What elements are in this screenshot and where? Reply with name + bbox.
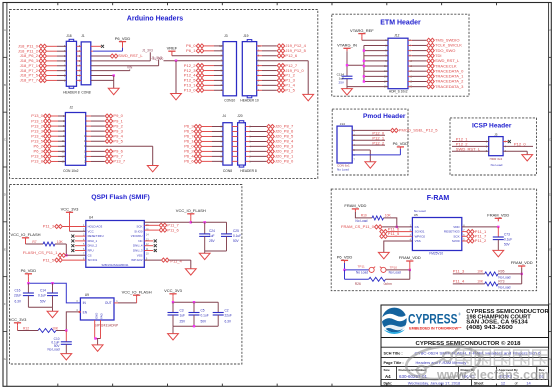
capacitor C73 [497,227,499,237]
wire J2 pin 10 to net P9_4 [86,135,91,137]
svg-text:P6_VDD: P6_VDD [393,141,409,146]
wire net P12_1 at J14 [352,139,385,141]
svg-text:FRAM_VDD: FRAM_VDD [399,255,421,260]
junction dot VTARG_IN vertical [346,64,348,66]
wire R12 to U9 EN [66,312,80,331]
svg-text:B: B [4,83,6,87]
wire J2 pin 16 to net P9_6 [86,150,91,152]
wire J4 to J20 row 6 [232,150,238,152]
QSPI Flash block dashed outline [10,185,242,365]
wire J2 pin 14 to ground [86,145,153,147]
svg-text:P11_4: P11_4 [453,279,465,284]
svg-text:50V: 50V [201,319,208,323]
svg-text:P11_5: P11_5 [388,231,400,236]
svg-text:HEADER 10: HEADER 10 [240,99,258,103]
svg-text:RESET:RFU: RESET:RFU [88,234,104,238]
svg-text:VSS: VSS [137,253,143,257]
svg-text:0.1uF: 0.1uF [201,314,209,318]
svg-text:FRAM_VDD: FRAM_VDD [344,203,366,208]
ground at J14 [365,162,376,168]
no-connect X on U4 left pin 5 [75,245,86,247]
wire VCC_IO_FLASH rail to U4 [190,217,192,223]
wire ETM bus to J12 left pin row 7 [364,70,388,72]
wire J19 to net P1_5 [257,89,262,91]
wire rail to decoupling caps [191,221,227,223]
svg-text:22uF: 22uF [14,293,21,297]
svg-text:WP:AO2: WP:AO2 [131,258,143,262]
svg-text:Date:: Date: [384,382,393,386]
svg-text:6.3V: 6.3V [15,299,22,303]
svg-text:0ohm: 0ohm [384,282,393,286]
svg-text:HDR_S 10x2: HDR_S 10x2 [389,90,408,94]
wire J12 to net SWD_RST_L [408,60,412,62]
title block outer box [381,305,549,386]
svg-text:RFU: RFU [88,249,94,253]
wire J20 to net J20_P8_7 [245,126,250,128]
svg-text:10K: 10K [385,214,392,218]
connector J14 (CON 6x1) [337,126,352,163]
wire J4 to J20 row 3 [232,135,238,137]
svg-text:No Load: No Load [356,271,368,275]
junction dot on ETM bus [363,49,365,51]
svg-text:NC: NC [138,239,142,243]
capacitor C3 [172,302,174,312]
ground at J5 [522,155,533,161]
wire ETM bus to J12 left pin row 6 [364,65,388,67]
svg-text:VSS: VSS [415,239,421,243]
svg-text:HEADER 8: HEADER 8 [240,169,257,173]
svg-text:C3: C3 [180,309,184,313]
svg-text:G: G [4,357,6,361]
wire P6_VDD to TP11 (blue) [344,263,346,270]
svg-text:J18: J18 [66,34,71,38]
wire net P11_6 from U4 SI [144,229,159,231]
resistor R12 10K [17,326,19,331]
wire J12 to net TRACEDATA_0 [408,70,412,72]
svg-text:P12_0: P12_0 [514,142,526,147]
svg-text:GND: GND [94,313,98,319]
svg-text:DNU_2: DNU_2 [88,244,98,248]
svg-text:E: E [4,247,6,251]
border zone ticks top [57,3,59,6]
svg-text:J18_P7_7: J18_P7_7 [20,78,39,83]
svg-text:U5: U5 [414,213,418,217]
wire J4 to J20 row 2 [232,130,238,132]
svg-text:DNU_1: DNU_1 [88,239,98,243]
wire J19 to net P1_2 [257,74,262,76]
svg-text:No Load: No Load [389,271,401,275]
wire net P11_7 from U5 [462,235,466,237]
resistor R7 10K pullup [26,243,44,245]
svg-text:CS: CS [415,225,419,229]
wire J19 to net P1_4 [257,84,262,86]
wire VTARG_REF to J12 pin 1 [361,37,363,41]
wire J19 to net J19_P12_5 [257,50,262,52]
sheet inner border lines [6,3,8,387]
wire J20 to net J20_P8_6 [245,130,250,132]
svg-text:J1_3V3: J1_3V3 [142,48,153,52]
svg-text:F: F [549,302,551,306]
watermark chinese characters [456,350,548,366]
wire J18 to J1 row 7 [77,75,82,77]
svg-text:Document Number: Document Number [399,368,427,372]
ground below bulk caps [172,326,174,333]
svg-text:J1: J1 [81,34,85,38]
svg-text:VTARG_IN: VTARG_IN [337,43,357,48]
svg-text:D: D [4,192,6,196]
wire J20 to net J20_P8_2 [245,150,250,152]
wire J4 to J20 row 4 [232,140,238,142]
no-connect X on U4 right pin 12 [144,245,153,247]
svg-text:P11_2: P11_2 [475,238,487,243]
wire J19 pin 7 to ground [257,60,309,62]
svg-text:C14: C14 [40,288,46,292]
svg-text:ETM Header: ETM Header [380,19,421,26]
wire J18 to J1 row 8 [77,79,82,81]
svg-text:P1_5: P1_5 [285,87,295,92]
ground at J19 [303,94,314,100]
capacitor C10 no load [65,331,67,342]
svg-text:P6_6: P6_6 [184,159,194,164]
svg-text:J12: J12 [394,34,399,38]
svg-text:C16: C16 [15,288,21,292]
wire TP10 to FRAM_VDD [386,269,410,271]
svg-text:Sheet: Sheet [474,382,484,386]
wire net VIN [91,70,130,72]
wire J20 to net J20_P8_5 [245,135,250,137]
border zone ticks left and right [3,56,7,58]
svg-text:P11_3: P11_3 [453,269,465,274]
wire net J1_3V3 [91,60,151,62]
svg-text:P11_6: P11_6 [167,228,179,233]
svg-text:R7: R7 [32,240,36,244]
svg-text:J2: J2 [70,106,74,110]
svg-text:VCC_IO_FLASH: VCC_IO_FLASH [10,232,40,237]
svg-text:C25: C25 [233,229,239,233]
svg-text:No Load: No Load [355,219,367,223]
svg-text:C2: C2 [225,309,229,313]
wire pullups to FRAM_VDD [521,268,523,284]
svg-text:P13_0: P13_0 [184,87,196,92]
wire U9 GND PAD pins to ground [94,320,96,339]
svg-text:CON 10x2: CON 10x2 [63,169,79,173]
wire J2 pin 20 to net P13_7 [86,160,91,162]
svg-text:VCC_3V3: VCC_3V3 [9,317,28,322]
svg-text:EN: EN [83,310,88,314]
wire U5 VDD to FRAM_VDD [462,226,499,228]
no-connect X on J5 pin 2 [503,141,508,143]
svg-text:P12_2: P12_2 [372,141,384,146]
wire WP net to ground [190,260,192,269]
svg-text:Page Title :: Page Title : [384,361,404,365]
svg-text:50V: 50V [504,242,511,246]
wire J2 pin 6 to net P9_2 [86,125,91,127]
wire J2 pin 2 to net P9_0 [86,115,91,117]
resistor R73 no load [485,282,498,286]
wire bulk caps top rail [172,297,174,302]
svg-text:A: A [4,28,6,32]
test point TP10 no load [381,267,386,272]
wire VTARG_IN vertical to ground through C134 [346,51,348,76]
wire bulk caps bottom rail [173,325,218,327]
F-RAM U5 FM25V10 [412,218,461,251]
svg-text:J20: J20 [237,114,242,118]
svg-text:VCC_IO_FLASH: VCC_IO_FLASH [176,208,206,213]
no-connect X on U4 right pin 13 [144,240,153,242]
wire J20 to net J20_P8_3 [245,145,250,147]
svg-text:R10: R10 [361,214,367,218]
svg-text:F: F [4,302,6,306]
svg-text:VTARG_REF: VTARG_REF [350,28,374,33]
svg-text:FRAM_CS_P11_0: FRAM_CS_P11_0 [341,224,375,229]
junction dot on ETM bus [363,80,365,82]
svg-text:J20_P8_0: J20_P8_0 [275,159,294,164]
svg-text:PAD: PAD [100,313,104,319]
wire net P11_1 from U5 [462,231,466,233]
watermark elecfans logo ellipse [404,342,481,383]
wire net P11_2 from U5 [462,240,466,242]
svg-text:CYPRESS SEMICONDUCTOR © 2018: CYPRESS SEMICONDUCTOR © 2018 [416,340,521,347]
svg-text:HOLD:AO3: HOLD:AO3 [88,225,103,229]
wire net P11_4 from U4 WP [144,259,161,261]
connector J12 (HDR_S 10x2) [388,38,408,88]
svg-text:No Load: No Load [337,167,349,171]
wire J4 to J20 row 1 [232,126,238,128]
svg-text:J4: J4 [222,114,226,118]
no-connect X on U4 left pin 6 [75,250,86,252]
wire J14 pin 5 to ground [352,149,370,151]
junction dot on ETM bus [363,75,365,77]
svg-text:EMBEDDED IN TOMORROW™: EMBEDDED IN TOMORROW™ [409,326,462,330]
svg-text:No Load: No Load [491,163,503,167]
svg-text:ICSP Header: ICSP Header [472,123,512,130]
ground below C14 [52,307,54,311]
svg-text:J5: J5 [494,133,498,137]
svg-text:TRACEDATA_3: TRACEDATA_3 [435,84,464,89]
wire J19 to net J19_P12_4 [257,45,262,47]
svg-text:C73: C73 [504,232,510,236]
svg-text:DNU_3: DNU_3 [133,249,143,253]
svg-text:FLASH_CS_P11_1: FLASH_CS_P11_1 [23,250,58,255]
svg-text:SO:IO1: SO:IO1 [88,258,98,262]
title block row lines [381,337,549,339]
svg-text:VCC_3V3: VCC_3V3 [61,207,80,212]
svg-text:No Load: No Load [47,348,59,352]
wire J20 to net J20_P8_0 [245,160,250,162]
svg-text:TP11: TP11 [358,265,365,269]
ETM Header block dashed outline [332,14,469,96]
svg-text:FRAM_VDD: FRAM_VDD [511,260,533,265]
svg-text:QSPI Flash (SMIF): QSPI Flash (SMIF) [91,194,150,201]
wire J12 to net TDI [408,55,412,57]
svg-text:U9: U9 [85,293,89,297]
resistor R95 no load [485,272,498,276]
svg-text:Size: Size [384,368,390,372]
no-connect X on U4 right pin 11 [144,250,153,252]
wire J18 to J1 row 5 [77,65,82,67]
wire J12 to net TRACEDATA_3 [408,86,412,88]
svg-text:P13_8: P13_8 [31,159,43,164]
svg-text:FM25V10: FM25V10 [429,251,443,255]
junction dot on ETM bus [363,65,365,67]
svg-text:50V: 50V [233,239,240,243]
svg-text:SWD_RST_L: SWD_RST_L [456,147,481,152]
wire J1 pin 1 to ground net [91,79,114,81]
wire J1 pin 2 to ground [91,75,114,77]
svg-text:P6_VDD: P6_VDD [115,36,131,41]
svg-text:OUT: OUT [105,301,112,305]
svg-text:R95: R95 [498,270,504,274]
connector J18 (HEADER 8) [66,41,76,86]
svg-text:P9_5: P9_5 [113,138,123,143]
wire J18 to J1 row 1 [77,45,82,47]
svg-text:VCC_3V3: VCC_3V3 [164,288,183,293]
wire J19 to net P12_7 [257,65,262,67]
regulator U9 SIP32431ADNP [80,298,114,320]
svg-text:A: A [549,28,551,32]
svg-text:1uF: 1uF [180,314,186,318]
connector J20 (HEADER 8) [238,123,246,165]
svg-text:10K: 10K [477,270,484,274]
svg-text:10K: 10K [477,280,484,284]
svg-text:CYPRESS: CYPRESS [408,312,458,327]
resistor R26 0ohm [344,270,346,279]
svg-text:0.1uF: 0.1uF [233,234,241,238]
capacitor C5 [193,302,195,312]
svg-text:C: C [549,138,551,142]
wire U5 VSS to ground [384,241,413,252]
svg-text:R73: R73 [498,280,504,284]
wire J14 pin 6 to P6_VDD (blue) [399,149,401,155]
svg-text:Arduino Headers: Arduino Headers [127,16,184,23]
wire J20 to net J20_P8_4 [245,140,250,142]
svg-text:10K: 10K [57,240,64,244]
connector J5 (HDR 3x2) [489,137,503,156]
wire net P12_0 at J5 pin 4 [503,145,533,147]
svg-text:P6_1: P6_1 [186,48,196,53]
title block column lines [396,367,398,380]
wire J12 to net TCLK_SWCLK [408,44,412,46]
no-connect X on U4 left pin 4 [75,240,86,242]
svg-text:of: of [515,382,518,386]
svg-text:VIN: VIN [127,66,133,70]
svg-text:CON10: CON10 [224,99,235,103]
svg-text:22uF: 22uF [225,314,232,318]
svg-text:J3: J3 [224,34,228,38]
wire ETM bus to J12 left pin row 9 [364,81,388,83]
svg-text:10K: 10K [52,326,59,330]
wire J20 to net J20_P8_1 [245,155,250,157]
svg-text:SO/IO1: SO/IO1 [415,230,425,234]
capacitor C2 [217,302,219,312]
svg-text:B: B [549,83,551,87]
capacitor C16 [27,283,29,293]
wire J18 to J1 row 3 [77,55,82,57]
wire J18 to J1 row 2 [77,50,82,52]
wire link VTARG_IN net to bus [347,64,364,66]
wire J18 to J1 row 4 [77,60,82,62]
connector J1 (CON8) [81,42,91,85]
svg-text:SCK: SCK [453,234,459,238]
ground at J1 [108,88,119,94]
svg-text:C5: C5 [201,309,205,313]
wire VCC_3V3 to U4 VCC [69,215,71,231]
svg-text:DNU_4: DNU_4 [133,244,143,248]
svg-text:0.1uF: 0.1uF [38,293,46,297]
wire J12 to net TMS_SWDIO [408,39,412,41]
svg-text:VCC_IO_FLASH: VCC_IO_FLASH [122,289,152,294]
wire C16 C14 bottom rail [28,306,52,308]
capacitor C14 [52,283,54,293]
ground below caps C24 C25 [199,253,210,259]
junction dot on ETM bus [363,60,365,62]
Cypress logo mark [382,308,407,334]
svg-text:SI/O0: SI/O0 [452,239,460,243]
svg-text:R12: R12 [23,326,29,330]
svg-text:VDD: VDD [453,225,460,229]
flash U4 S25FL512S [86,221,145,268]
svg-text:J14: J14 [340,122,345,126]
svg-text:A4: A4 [385,374,391,379]
svg-text:CON8: CON8 [223,169,232,173]
Arduino Headers block dashed outline [10,10,318,179]
wire J4 to J20 row 8 [232,160,238,162]
svg-text:50V: 50V [40,299,47,303]
svg-text:Pmod Header: Pmod Header [363,113,406,120]
ground at VTARG_IN / C134 [342,89,353,95]
border zone ticks bottom [57,384,59,387]
wire J12 bottom left pin [347,86,388,88]
ICSP Header block dashed outline [450,118,537,175]
wire J2 pin 4 to net P9_1 [86,120,91,122]
svg-text:25V: 25V [338,80,344,84]
svg-text:25V: 25V [209,239,216,243]
connector J4 (CON8) [223,123,232,165]
ground below U4 right [185,269,196,275]
svg-text:6.3V: 6.3V [225,319,232,323]
svg-text:0.1uF: 0.1uF [504,237,512,241]
connector J3 (CON10) [223,42,237,96]
svg-text:U4: U4 [89,216,93,220]
wire J3 area to ground [175,59,177,61]
ground below U5 VSS [378,252,389,258]
svg-text:P12_6: P12_6 [285,53,297,58]
svg-text:WP/IO2: WP/IO2 [415,234,426,238]
wire net SWD_RST_L at J1 [91,55,110,57]
wire J19 to net P1_3 [257,79,262,81]
svg-text:P6_VDD: P6_VDD [337,255,353,260]
wire FRAM_VDD down to R26 [409,270,411,279]
svg-text:1uF: 1uF [209,234,215,238]
wire ETM bus to J12 left pin row 4 [364,55,388,57]
svg-text:CS: CS [88,253,92,257]
svg-text:HDR 3x2: HDR 3x2 [490,157,503,161]
wire VREF to J3 pin 8 [172,55,223,57]
wire ETM bus to J12 left pin row 2 [364,44,388,46]
svg-text:25V: 25V [180,319,187,323]
svg-text:J1_3V0: J1_3V0 [152,57,163,61]
wire J12 to net TRACEDATA_1 [408,75,412,77]
wire caps bottom rail to ground [205,250,227,252]
svg-text:J19: J19 [243,34,248,38]
connector J2 (CON 10x2) [65,113,85,166]
wire P6_VDD blue rail to U9 IN [27,277,29,283]
wire ETM bus to J12 left pin row 5 [364,60,388,62]
test point TP11 no load [369,267,374,272]
wire ETM bus to J12 left pin row 3 [364,50,388,52]
svg-text:HEADER 8: HEADER 8 [63,90,80,94]
wire net P12_0 at J14 [352,134,385,136]
